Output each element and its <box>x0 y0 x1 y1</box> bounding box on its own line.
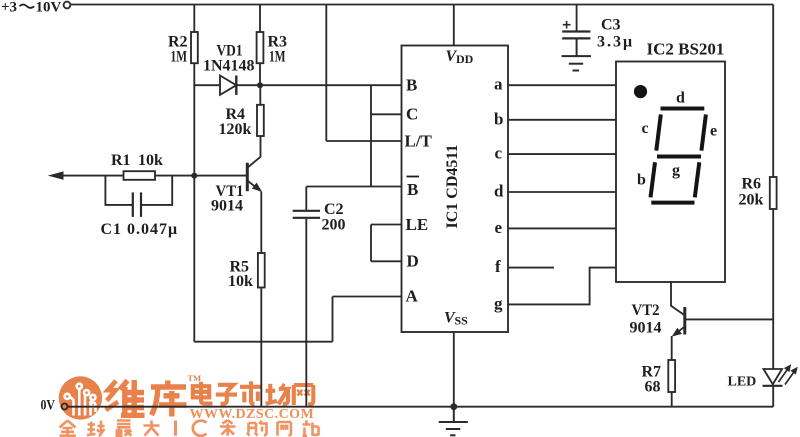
char qiu <box>87 422 96 436</box>
capacitor C1 branch <box>105 176 172 217</box>
svg-text:WWW.DZSC.COM: WWW.DZSC.COM <box>190 407 315 422</box>
svg-text:IC1 CD4511: IC1 CD4511 <box>444 144 461 228</box>
svg-text:a: a <box>494 75 503 94</box>
wire L/T pin <box>326 140 401 142</box>
wire top supply rail <box>71 4 774 6</box>
svg-text:C2: C2 <box>324 201 344 218</box>
svg-text:10k: 10k <box>138 152 163 169</box>
wire right rail down from top <box>772 5 774 178</box>
wire feedback horizontal <box>194 341 332 343</box>
wire diode line / B pin wire <box>194 84 401 86</box>
svg-text:C: C <box>406 105 418 124</box>
wire LED to bottom rail <box>772 386 774 407</box>
resistor R7 <box>668 360 675 392</box>
wire C3 riser <box>576 5 578 32</box>
svg-text:1M: 1M <box>171 49 188 66</box>
terminal 0V <box>62 404 68 410</box>
char zhan <box>303 420 311 435</box>
svg-text:0V: 0V <box>41 398 56 414</box>
capacitor C3 polarized <box>562 32 590 39</box>
svg-text:g: g <box>672 162 680 179</box>
display IC2 BS201 box <box>616 62 725 283</box>
wire right rail R6 to LED <box>772 209 774 369</box>
svg-text:d: d <box>494 182 504 201</box>
svg-text:+3: +3 <box>1 0 17 16</box>
7-segment digit segments <box>651 109 706 203</box>
resistor R1 <box>124 171 156 180</box>
plus sign C3 <box>563 21 571 29</box>
svg-text:10k: 10k <box>228 273 253 290</box>
wire R3 branch vertical <box>259 5 261 33</box>
watermark logo circle <box>59 376 102 419</box>
svg-text:LED: LED <box>728 375 757 390</box>
watermark slogan row <box>60 420 319 436</box>
char I <box>174 421 177 436</box>
svg-text:9014: 9014 <box>630 320 662 337</box>
char quan <box>60 421 76 428</box>
watermark char wang <box>294 385 314 405</box>
node base junction dot <box>191 173 197 179</box>
wire f pin stub <box>508 267 554 269</box>
arrow output left <box>48 171 246 179</box>
resistor R6 <box>770 177 777 209</box>
svg-text:DD: DD <box>456 52 474 66</box>
svg-text:B: B <box>406 76 417 95</box>
svg-text:b: b <box>494 109 503 128</box>
watermark char ku <box>151 381 187 417</box>
svg-text:e: e <box>495 218 503 237</box>
wire IC2 common pin to VT2 base <box>671 282 684 315</box>
ground symbol below rail <box>439 407 468 436</box>
svg-text:D: D <box>407 252 419 271</box>
wire b pin <box>508 119 616 121</box>
svg-text:C3: C3 <box>601 17 621 34</box>
svg-text:L/T: L/T <box>405 132 433 151</box>
wire Bbar pin <box>306 186 401 188</box>
svg-text:C1 0.047μ: C1 0.047μ <box>101 221 179 238</box>
svg-text:1N4148: 1N4148 <box>203 58 255 75</box>
wire C2 riser <box>305 187 307 211</box>
LED arrows <box>779 364 798 384</box>
watermark char wei <box>106 380 145 416</box>
capacitor C2 <box>293 211 320 218</box>
svg-text:R1: R1 <box>111 152 131 169</box>
svg-text:d: d <box>676 90 685 107</box>
wire R2 branch vertical <box>193 5 195 33</box>
char wang2 <box>278 422 292 436</box>
svg-text:f: f <box>495 257 501 276</box>
watermark char shi <box>240 381 262 404</box>
svg-text:TM: TM <box>188 373 202 383</box>
wire VT1 emitter down to R5 <box>260 192 262 254</box>
wire A pin <box>333 296 402 298</box>
wire e pin <box>508 227 616 229</box>
wire R4 to VT1 collector <box>248 136 261 167</box>
wire d pin <box>508 191 616 193</box>
wire R3 bottom to diode junction <box>259 63 261 85</box>
svg-text:R6: R6 <box>742 176 762 193</box>
wire VT2 emitter to R7 <box>671 336 673 360</box>
char gou <box>247 423 258 436</box>
wire g pin stepped <box>508 268 616 305</box>
wire C pin <box>371 113 402 115</box>
svg-text:68: 68 <box>645 379 661 396</box>
svg-text:LE: LE <box>406 215 429 234</box>
resistor R5 <box>258 253 265 288</box>
watermark char dian <box>193 382 213 404</box>
wire R7 to 0V rail <box>671 392 673 407</box>
svg-text:IC2 BS201: IC2 BS201 <box>647 40 725 59</box>
ground symbol C3 <box>562 39 591 70</box>
svg-text:g: g <box>494 294 503 313</box>
wire VDD riser <box>453 5 455 46</box>
wire VT2 collector to right rail <box>686 318 773 320</box>
resistor R4 <box>257 105 264 136</box>
svg-text:c: c <box>642 120 649 137</box>
wire LE pin <box>371 224 402 226</box>
transistor VT2 <box>672 307 685 337</box>
svg-text:e: e <box>710 123 717 140</box>
svg-text:20k: 20k <box>739 192 764 209</box>
resistor R2 <box>191 32 198 63</box>
svg-text:B: B <box>407 180 418 199</box>
wire junction to R4 <box>259 85 261 105</box>
wire LE-D vertical <box>370 225 372 262</box>
svg-text:3.3μ: 3.3μ <box>597 34 634 51</box>
wire R5 bottom to 0V rail <box>260 288 262 407</box>
svg-text:c: c <box>495 144 503 163</box>
svg-text:b: b <box>637 172 646 189</box>
char da <box>144 421 160 436</box>
wire a pin <box>508 84 616 86</box>
resistor R3 <box>257 32 264 63</box>
wire c pin <box>508 153 616 155</box>
op-amp IC1 CD4511 box <box>402 46 509 333</box>
svg-text:VT2: VT2 <box>632 302 660 319</box>
wire VSS drop <box>453 332 455 407</box>
char cai <box>220 420 236 435</box>
watermark char zi <box>216 385 237 404</box>
wire L/T riser from rail <box>325 5 327 142</box>
watermark char chang <box>266 384 288 405</box>
wire C2 bottom to 0V <box>305 219 307 407</box>
svg-text:200: 200 <box>322 217 346 234</box>
node diode junction dot <box>257 82 263 88</box>
wire bottom 0V rail <box>68 406 774 408</box>
decimal point dot <box>634 85 647 98</box>
svg-text:1M: 1M <box>269 49 286 66</box>
wire D pin <box>371 260 402 262</box>
svg-text:120k: 120k <box>219 121 252 138</box>
wire R2 bottom down to feedback <box>193 63 195 342</box>
terminal +V input <box>64 2 71 9</box>
svg-text:SS: SS <box>455 314 469 328</box>
svg-text:10V: 10V <box>36 0 62 16</box>
svg-text:9014: 9014 <box>211 198 243 215</box>
transistor VT1 <box>247 163 262 192</box>
svg-text:A: A <box>406 287 419 306</box>
wire B-C-Bbar vertical <box>370 85 372 186</box>
wire A riser <box>332 297 334 342</box>
node VSS ground dot <box>450 403 457 410</box>
diode VD1 <box>220 76 236 95</box>
char C <box>193 421 207 436</box>
char zui <box>117 421 131 428</box>
LED diode symbol <box>763 369 783 386</box>
